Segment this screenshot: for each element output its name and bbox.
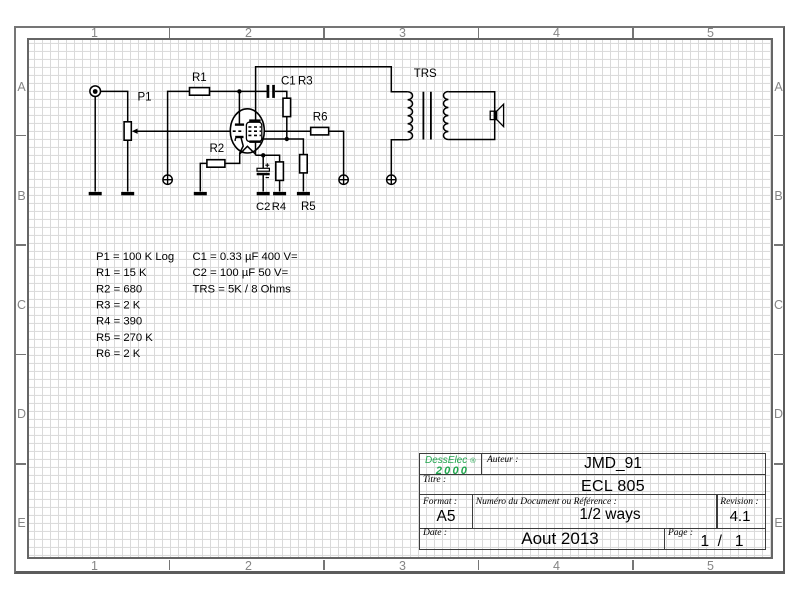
ground R5: [297, 192, 310, 195]
transformer TRS core: [423, 92, 431, 140]
ruler tick bottom 3/4: [478, 560, 480, 570]
ruler tick bottom 1/2: [169, 560, 171, 570]
speaker: [490, 104, 503, 126]
resistor R5: [300, 155, 308, 173]
wire secondary to speaker loop: [448, 92, 494, 140]
wire C1 right to R3 top: [275, 91, 287, 98]
title block outer frame: [419, 453, 767, 550]
title block row divider 3: [419, 528, 767, 530]
ruler label bottom 4: [547, 560, 567, 573]
wire R2 left to ground: [200, 163, 207, 191]
value 4.1: [715, 509, 765, 524]
transformer TRS primary winding: [408, 92, 413, 140]
wire TRS primary bottom to earth 3: [391, 140, 407, 175]
tube triode anode: [235, 123, 244, 125]
title block logo cell divider: [481, 453, 483, 474]
junction dot cathode/C2: [261, 153, 265, 157]
title block revision cell divider: [716, 494, 718, 529]
potentiometer P1 body: [124, 122, 131, 140]
svg-text:R4 = 390: R4 = 390: [96, 316, 142, 328]
label Titre: [423, 476, 446, 486]
title block row divider 2: [419, 494, 767, 496]
earth symbol 1: [163, 175, 172, 184]
ruler label bottom 3: [393, 560, 413, 573]
ruler label top 3: [393, 27, 413, 40]
wire cathode node to R4 top: [256, 155, 280, 162]
wire triode cathode to R2: [225, 138, 243, 164]
ruler tick top 4/5: [632, 28, 634, 38]
value list column 2: [193, 251, 299, 295]
earth symbol 3: [387, 175, 396, 184]
ruler label left C: [12, 299, 32, 312]
logo DessElec 2000: [425, 456, 480, 478]
ruler tick right D/E: [774, 463, 785, 465]
capacitor C2 (electrolytic): [257, 163, 270, 177]
value JMD_91: [563, 456, 663, 472]
title block format cell divider: [472, 494, 474, 529]
title block row divider 1: [419, 474, 767, 476]
ruler label left A: [12, 81, 32, 94]
svg-text:TRS = 5K / 8 Ohms: TRS = 5K / 8 Ohms: [193, 283, 292, 295]
capacitor C1: [267, 85, 275, 98]
resistor R3: [283, 98, 291, 116]
label Auteur: [487, 456, 518, 466]
ruler label left E: [12, 517, 32, 530]
resistor R2: [207, 160, 225, 168]
svg-text:P1: P1: [138, 92, 152, 104]
svg-text:TRS: TRS: [414, 68, 437, 80]
ground R2: [194, 192, 207, 195]
label Revision: [720, 498, 758, 508]
ruler label top 5: [701, 27, 721, 40]
svg-text:R3 = 2 K: R3 = 2 K: [96, 300, 141, 312]
wire R1 left to earth 1: [168, 91, 190, 175]
ruler tick bottom 2/3: [323, 560, 325, 570]
ruler tick right B/C: [774, 244, 785, 246]
svg-text:R1 = 15 K: R1 = 15 K: [96, 267, 147, 279]
ruler label right E: [769, 517, 789, 530]
tube pentode anode: [249, 119, 260, 121]
svg-text:C2 = 100 µF 50 V=: C2 = 100 µF 50 V=: [193, 267, 289, 279]
svg-text:R6 = 2 K: R6 = 2 K: [96, 348, 141, 360]
svg-text:R2: R2: [210, 143, 225, 155]
ruler tick right A/B: [774, 135, 785, 137]
ruler label bottom 1: [85, 560, 105, 573]
svg-text:R5 = 270 K: R5 = 270 K: [96, 332, 153, 344]
tube triode grid dashes: [233, 130, 244, 132]
wire pentode anode to TRS primary: [256, 67, 408, 120]
junction dot anode/R1: [237, 89, 241, 93]
ruler label right A: [769, 81, 789, 94]
ground R4: [273, 192, 286, 195]
wire R6 right to earth 2: [329, 131, 344, 175]
svg-text:R1: R1: [192, 72, 207, 84]
ruler tick right C/D: [774, 354, 785, 356]
resistor R4: [276, 162, 284, 181]
tube pentode capsule: [246, 122, 261, 141]
svg-text:C1: C1: [281, 75, 296, 87]
ruler tick top 3/4: [478, 28, 480, 38]
ground C2: [257, 192, 270, 195]
svg-text:R5: R5: [301, 201, 316, 213]
tube heater: [240, 146, 256, 154]
ground P1: [121, 192, 134, 195]
earth symbol 2: [339, 175, 348, 184]
svg-text:C2: C2: [256, 201, 270, 213]
ruler label top 4: [547, 27, 567, 40]
svg-text:R6: R6: [313, 112, 328, 124]
value Aout 2013: [510, 530, 610, 547]
wire R4 bottom to ground: [279, 180, 281, 191]
wire node to R5 top: [262, 139, 304, 155]
wire pentode cathode lead: [255, 142, 257, 155]
ruler label top 2: [239, 27, 259, 40]
label Format: [423, 498, 457, 508]
tube pentode cathode: [249, 140, 261, 143]
resistor R6: [311, 127, 329, 134]
tube U1 envelope: [230, 109, 264, 153]
ruler label right D: [769, 408, 789, 421]
wire grid right (tube to R6): [264, 130, 311, 132]
wire triode anode lead: [238, 91, 240, 124]
wire P1 bottom to ground: [127, 140, 129, 191]
ruler label top 1: [85, 27, 105, 40]
ruler tick top 1/2: [169, 28, 171, 38]
ruler label bottom 5: [701, 560, 721, 573]
svg-text:P1 = 100 K Log: P1 = 100 K Log: [96, 251, 174, 263]
tube pentode grid dashes: [248, 127, 261, 135]
wire R5 bottom to ground: [302, 173, 304, 192]
value list column 1: [96, 251, 174, 360]
value A5: [421, 509, 471, 525]
label Page: [668, 529, 693, 539]
wire C2 top branch: [262, 155, 264, 168]
ruler label bottom 2: [239, 560, 259, 573]
ruler tick left C/D: [16, 354, 27, 356]
svg-text:R3: R3: [298, 75, 313, 87]
ruler label right C: [769, 299, 789, 312]
ruler label right B: [769, 190, 789, 203]
value ECL 805: [563, 479, 663, 495]
svg-text:R2 = 680: R2 = 680: [96, 283, 142, 295]
wire R1 right to C1: [210, 90, 267, 92]
svg-text:R4: R4: [272, 201, 286, 213]
tube triode cathode: [235, 136, 243, 138]
svg-text:C1 = 0.33 µF 400 V=: C1 = 0.33 µF 400 V=: [193, 251, 299, 263]
ruler label left B: [12, 190, 32, 203]
resistor R1: [190, 88, 210, 96]
ruler tick bottom 4/5: [632, 560, 634, 570]
ruler tick left D/E: [16, 463, 27, 465]
ruler tick top 2/3: [323, 28, 325, 38]
transformer TRS secondary winding: [444, 92, 449, 140]
wire jack sleeve to ground: [94, 96, 96, 191]
value 1 / 1: [692, 534, 752, 550]
potentiometer P1 wiper arrow: [132, 129, 138, 134]
input jack: [90, 86, 101, 97]
ground jack: [89, 192, 102, 195]
wire jack to P1 top: [100, 91, 127, 121]
label Numero du Document: [476, 498, 617, 508]
junction dot R3/R5 node: [285, 137, 289, 141]
ruler label left D: [12, 408, 32, 421]
title block page cell divider: [664, 528, 666, 551]
label Date: [423, 529, 447, 539]
ruler tick left B/C: [16, 244, 27, 246]
wire grid left (P1 wiper to tube): [137, 130, 230, 132]
value 1/2 ways: [560, 507, 660, 523]
wire C2 bottom to ground: [262, 175, 264, 192]
ruler tick left A/B: [16, 135, 27, 137]
wire R3 bottom to node: [286, 117, 288, 139]
